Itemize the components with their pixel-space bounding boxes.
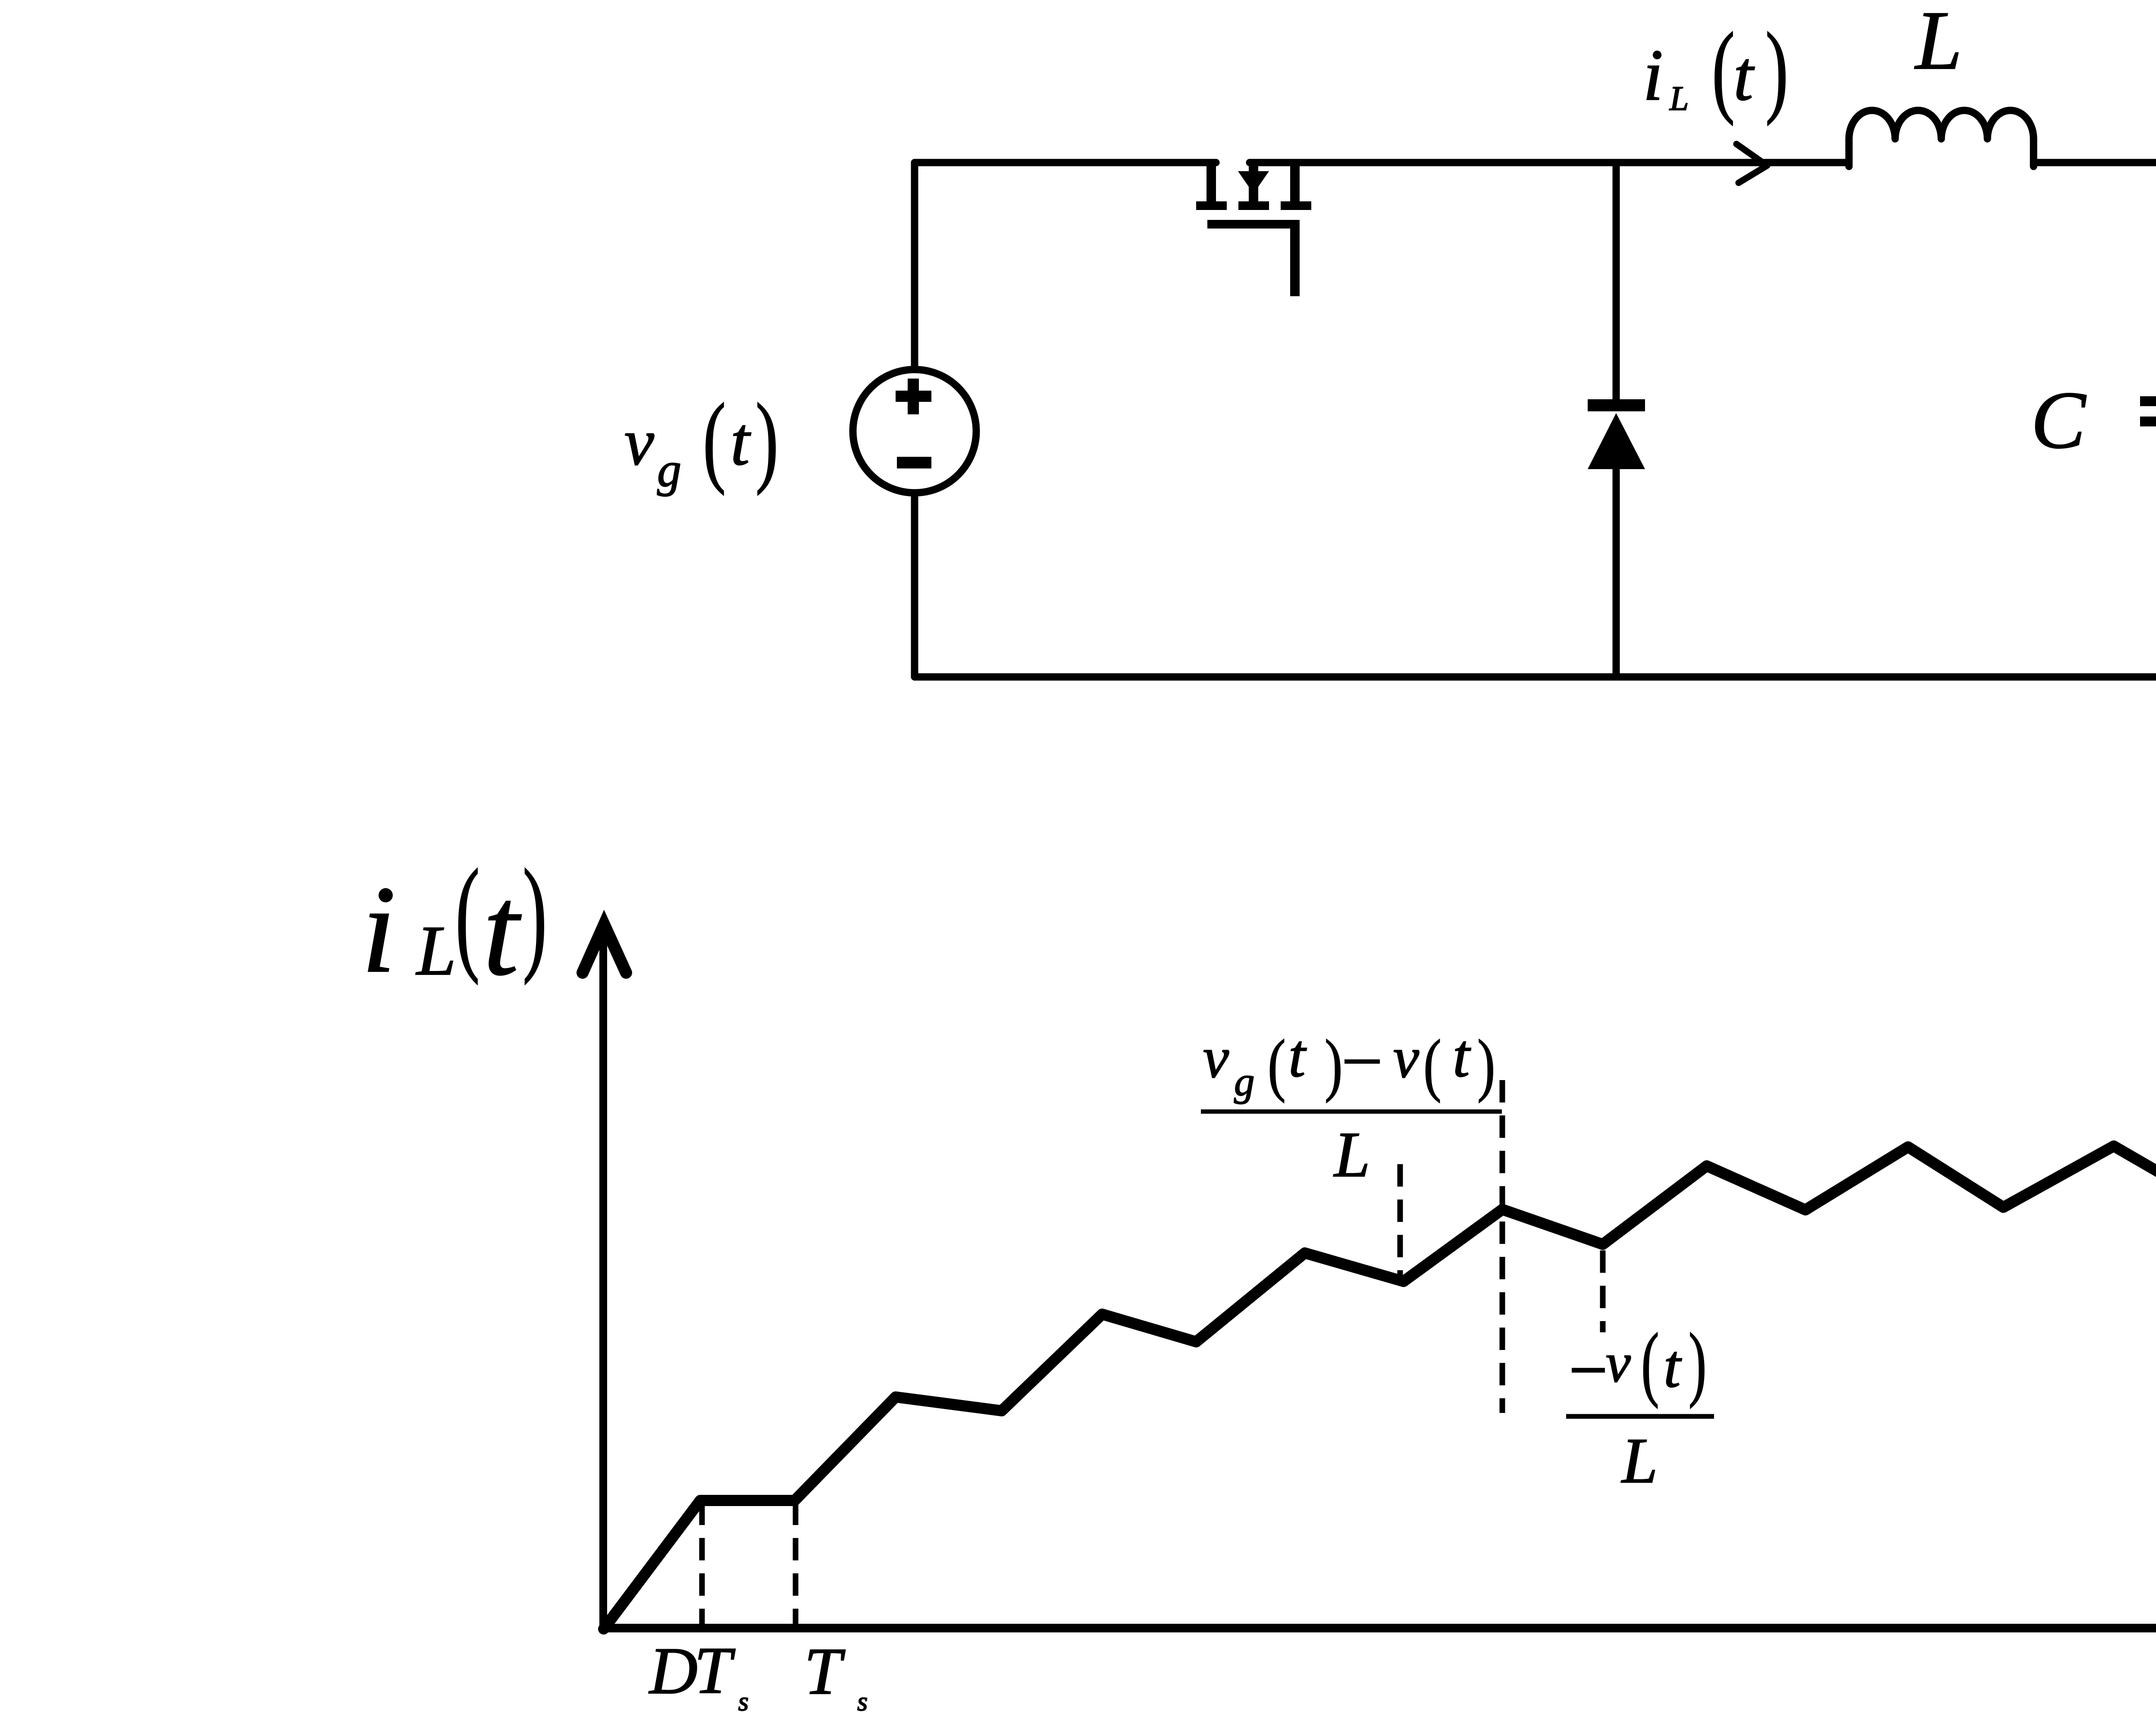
svg-text:t: t — [1453, 1021, 1471, 1090]
svg-text:T: T — [694, 1633, 736, 1707]
capacitor C bottom plate — [2140, 417, 2156, 426]
label iL(t) (circuit) — [1643, 12, 1788, 126]
svg-text:T: T — [804, 1634, 846, 1708]
svg-text:v: v — [1393, 1026, 1419, 1090]
label vg(t) — [624, 382, 778, 497]
svg-text:(: ( — [455, 843, 480, 985]
fraction label (vg(t)-v(t))/L : numerator — [1203, 1021, 1495, 1104]
D1 triangle (anode, pointing up) — [1588, 413, 1645, 469]
label Ts — [804, 1634, 868, 1716]
Q1 gate lead — [1290, 229, 1300, 296]
svg-text:L: L — [1914, 0, 1962, 87]
current arrow iL(t) on top wire — [1736, 144, 1767, 183]
svg-text:s: s — [738, 1687, 749, 1716]
fraction bar -v(t)/L — [1566, 1414, 1714, 1419]
svg-text:i: i — [1643, 34, 1663, 116]
svg-text:t: t — [730, 403, 751, 479]
D1 cathode bar — [1588, 399, 1645, 411]
svg-text:L: L — [416, 911, 456, 990]
y-axis (iL axis) — [599, 931, 607, 1628]
dashed vertical below up-slope fraction label — [1398, 1164, 1403, 1284]
voltage source minus sign — [897, 457, 931, 469]
Q1 middle stub — [1249, 163, 1258, 201]
wire: top wire from MOSFET drain to inductor left terminal — [1250, 159, 1849, 166]
inductor current waveform iL(t) — [604, 1143, 2156, 1629]
svg-text:(: ( — [1423, 1026, 1442, 1103]
D1 anode lead (down to bottom wire) — [1613, 469, 1620, 677]
x-axis (t axis) — [603, 1624, 2156, 1632]
wire: top-left loop (left vertical upper segment + top wire to MOSFET source stub) — [915, 163, 1216, 366]
svg-text:): ) — [1477, 1026, 1495, 1103]
y-axis arrowhead — [583, 924, 626, 973]
dashed vertical tall at peak — [1500, 1080, 1505, 1413]
fraction bar (vg(t)-v(t))/L — [1201, 1109, 1502, 1114]
svg-text:v: v — [1606, 1332, 1631, 1394]
D1 cathode lead (top wire junction down to cathode bar) — [1613, 163, 1620, 399]
Q1 drain contact bar — [1281, 201, 1311, 210]
svg-text:v: v — [1203, 1026, 1229, 1090]
svg-text:(: ( — [1268, 1026, 1286, 1103]
inductor L — [1849, 110, 2034, 166]
voltage source plus sign — [896, 379, 931, 414]
svg-text:t: t — [1664, 1332, 1682, 1400]
dashed vertical above down-slope fraction label — [1600, 1250, 1606, 1332]
capacitor C top plate — [2140, 396, 2156, 406]
voltage source vg (circle) — [853, 370, 976, 493]
wire: left vertical lower segment + bottom wire (ground return) — [915, 496, 2156, 677]
svg-text:v: v — [624, 405, 654, 479]
svg-text:g: g — [657, 443, 681, 497]
svg-text:t: t — [1288, 1021, 1307, 1090]
svg-text:): ) — [523, 843, 547, 985]
svg-text:): ) — [1325, 1026, 1343, 1103]
Q1 body arrow — [1238, 171, 1269, 194]
fraction label -v(t)/L : numerator — [1572, 1317, 1707, 1409]
svg-text:(: ( — [1712, 12, 1735, 126]
Q1 middle contact bar — [1238, 201, 1269, 210]
dashed vertical at Ts — [793, 1503, 799, 1625]
Q1 drain stub — [1290, 163, 1300, 201]
dashed vertical at DTs — [699, 1503, 705, 1625]
Q1 gate bar — [1207, 220, 1300, 229]
svg-text:): ) — [1765, 12, 1788, 126]
svg-text:L: L — [1333, 1119, 1370, 1190]
label iL(t) (y axis) — [361, 843, 547, 1002]
svg-text:i: i — [361, 860, 396, 999]
svg-text:): ) — [755, 382, 778, 495]
svg-text:(: ( — [703, 382, 726, 495]
transistor Q1 (MOSFET switch) — [1196, 163, 1311, 296]
svg-text:t: t — [1733, 36, 1755, 115]
Q1 source stub — [1206, 163, 1216, 201]
svg-text:L: L — [1621, 1425, 1658, 1497]
svg-text:t: t — [483, 859, 523, 1002]
label DTs — [649, 1633, 749, 1716]
svg-text:): ) — [1689, 1317, 1707, 1409]
wire: top wire from inductor right terminal through capacitor node to top-right corner — [2034, 159, 2156, 166]
Q1 source contact bar — [1196, 201, 1227, 210]
svg-text:C: C — [2031, 375, 2087, 466]
diode D1 (freewheeling diode) — [1588, 163, 1645, 677]
svg-text:s: s — [857, 1687, 868, 1716]
svg-text:L: L — [1669, 80, 1689, 118]
svg-text:g: g — [1234, 1059, 1255, 1104]
svg-text:D: D — [649, 1634, 698, 1708]
svg-text:(: ( — [1641, 1317, 1659, 1409]
